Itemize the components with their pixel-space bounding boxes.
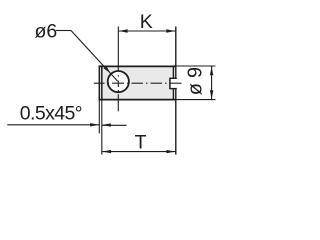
left face extension line below part <box>98 100 100 133</box>
horizontal axis centerline (dash-dot) <box>94 82 182 84</box>
svg-text:ø9: ø9 <box>185 62 207 95</box>
ø9 dimension line <box>211 66 213 100</box>
leader ø6 arrowhead <box>104 66 111 74</box>
ø9 top arrow <box>210 67 213 76</box>
left face line <box>98 65 100 100</box>
slot cavity (white cut at right end) <box>170 79 176 88</box>
ø9 top extension line <box>176 65 215 67</box>
slot lower line <box>170 88 177 90</box>
K right arrow <box>166 29 175 32</box>
K left arrow <box>119 29 128 32</box>
svg-text:0.5x45°: 0.5x45° <box>20 102 82 124</box>
right face line doubling as K/T extension line (interrupted at slot) <box>175 27 177 79</box>
T dimension line <box>102 151 176 153</box>
T right arrow <box>166 150 175 153</box>
leader ø6 horizontal segment <box>56 30 71 32</box>
left chamfer line <box>101 65 103 100</box>
top edge <box>99 65 177 67</box>
chamfer leader line <box>7 124 99 126</box>
bottom edge <box>99 99 177 101</box>
svg-text:K: K <box>140 11 153 33</box>
chamfer opposing arrow (left-pointing) with tail <box>102 124 127 126</box>
hole circle ø6 <box>108 71 129 92</box>
T left arrow <box>102 150 111 153</box>
ø9 bottom extension line <box>176 99 215 101</box>
svg-text:T: T <box>135 132 147 154</box>
leader ø6 diagonal segment <box>71 31 118 82</box>
right chamfer line (interrupted by slot) <box>172 65 174 78</box>
ø9 bottom arrow <box>210 90 213 99</box>
left chamfer extension line below part (T extension) <box>101 100 103 154</box>
slot top line <box>170 77 177 79</box>
svg-text:ø6: ø6 <box>35 21 58 43</box>
vertical centerline / K extension through hole <box>117 27 119 112</box>
chamfer leader arrow (right-pointing) <box>90 123 99 126</box>
slot bottom line <box>169 78 171 90</box>
K dimension line <box>118 30 176 32</box>
part body (cylinder side view, gray fill) <box>99 66 175 100</box>
